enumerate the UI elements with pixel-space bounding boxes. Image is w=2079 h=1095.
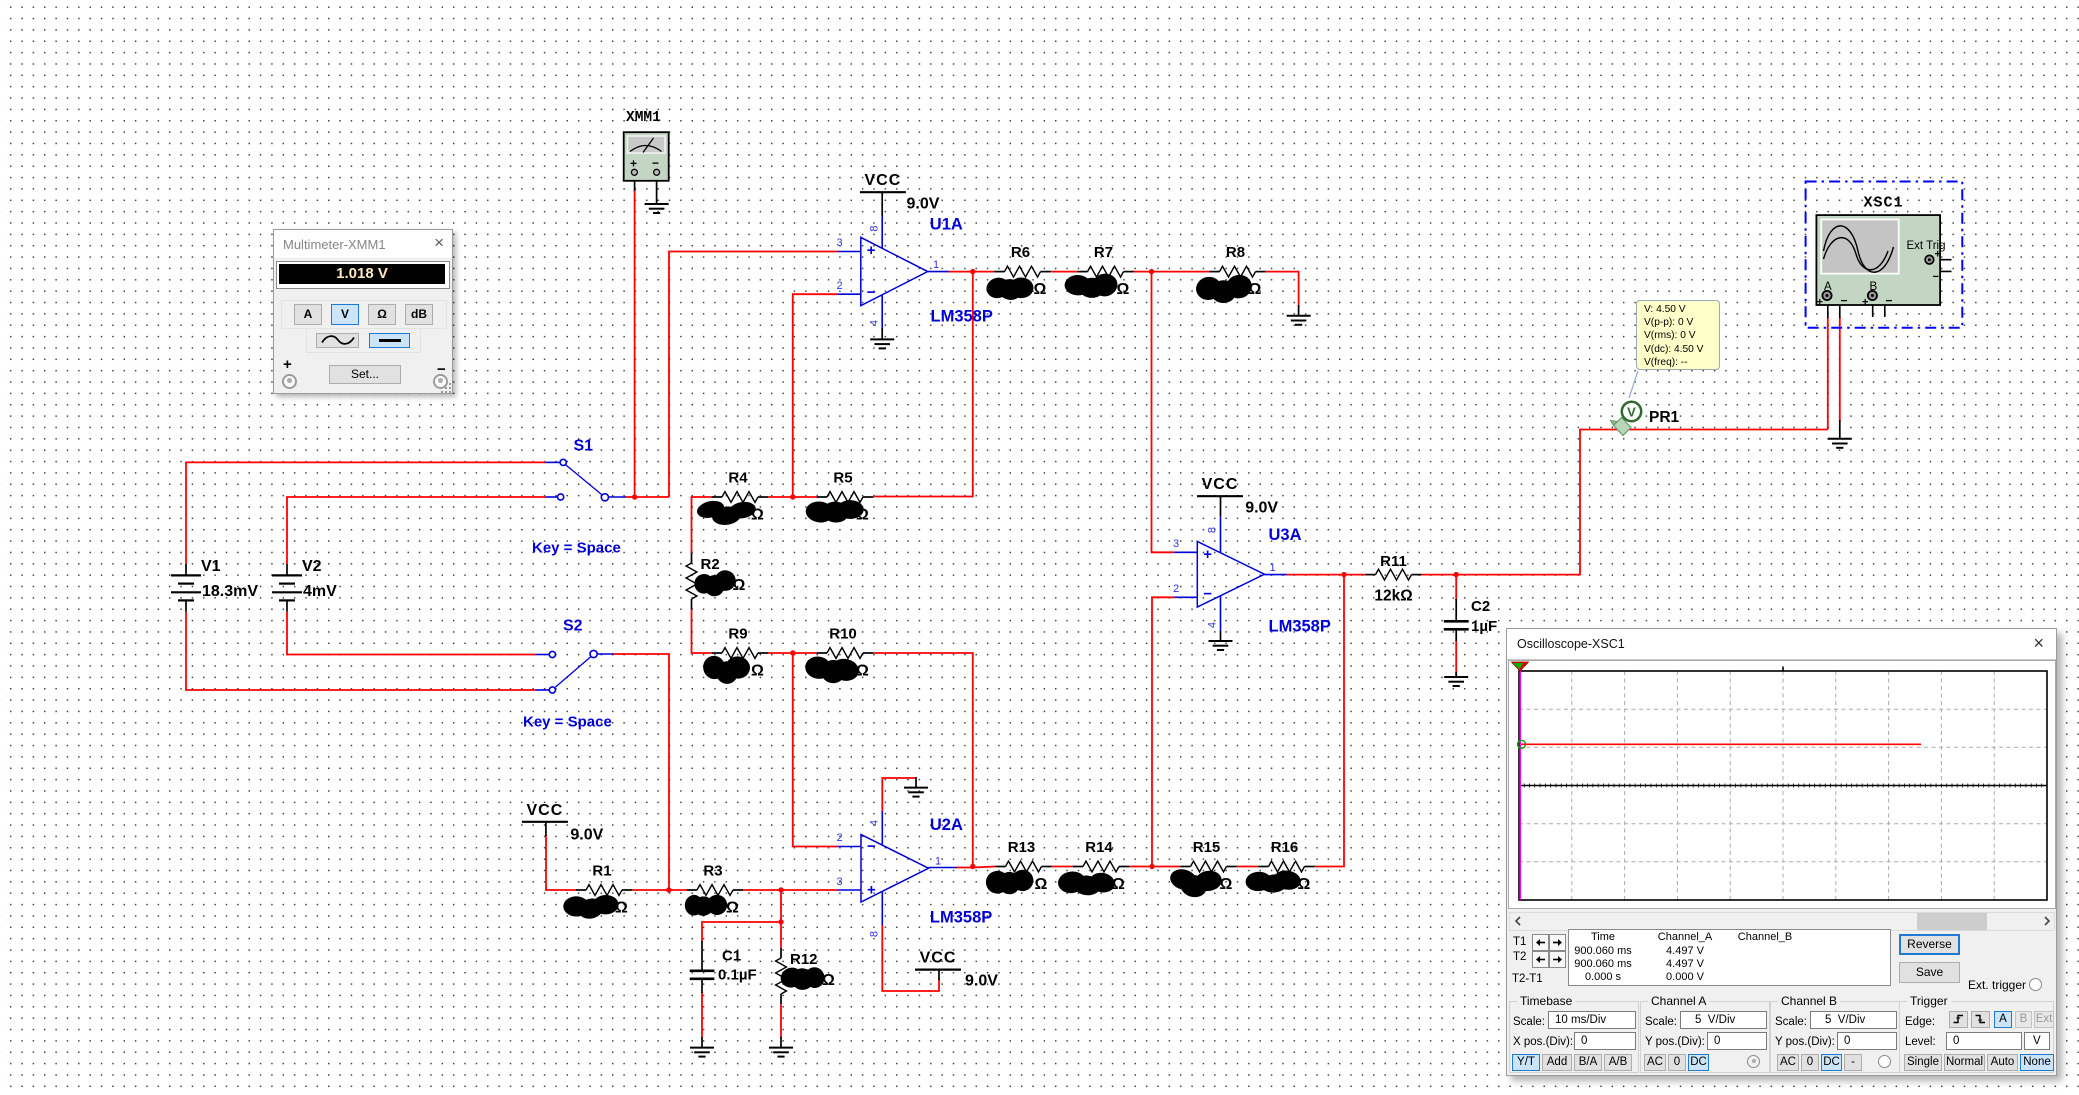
resistor R14 [1057,839,1130,897]
junction C1R12 node [778,919,783,924]
resistor R1 [563,863,632,922]
wire R7 to R8 node [1134,271,1209,273]
svg-text:12kΩ: 12kΩ [1374,588,1412,605]
wire R2 bottom to R9 left [692,609,712,653]
wire R4R5 node up to U1A pin2 [793,294,838,497]
svg-text:V1: V1 [201,558,221,575]
wire scope A plus down to PR1 wire [1827,317,1829,430]
wire S2 output down to R1 node [613,654,669,890]
wire R13R14 node up to U3A pin2 [1152,597,1174,866]
multimeter XMM1 icon [624,132,669,181]
wire C2 bottom to ground [1455,640,1457,677]
resistor R7 [1064,244,1133,298]
wire V2 top to S1 [287,497,546,564]
svg-text:+: + [1935,249,1941,261]
svg-text:Ω: Ω [1249,281,1262,298]
junction R4R5 node [790,494,795,499]
svg-text:LM358P: LM358P [1269,617,1331,635]
wire R12 bottom to ground [780,1004,782,1038]
label U1A [930,216,963,234]
svg-text:R14: R14 [1085,839,1113,856]
svg-text:−: − [867,284,876,301]
junction R11C2 node [1454,572,1459,577]
junction R7R8 node [1149,269,1154,274]
svg-text:Ω: Ω [1117,281,1130,298]
svg-text:R2: R2 [701,556,720,573]
wire R15 to R16 [1237,866,1258,868]
wire R1 to R3 node [632,889,686,891]
svg-text:Ω: Ω [1220,876,1233,893]
label 9.0V U2A left [570,827,603,844]
wire U2A pin8 to VCC [882,925,939,991]
power VCC U2A left [522,802,568,822]
resistor R3 [684,863,743,918]
svg-text:3: 3 [1173,538,1179,550]
wire U3A out to R11 [1286,574,1365,576]
oscilloscope XSC1 icon [1806,182,1963,328]
svg-text:R5: R5 [833,470,852,487]
wire R9 right to R10 left [768,652,816,654]
resistor R10 [804,626,874,685]
power VCC U1A [860,172,906,192]
svg-text:R9: R9 [728,626,747,643]
svg-text:−: − [867,838,876,855]
svg-text:9.0V: 9.0V [1245,500,1278,517]
svg-text:VCC: VCC [1202,476,1239,493]
wire U2A pin leads [838,811,957,925]
svg-text:Ω: Ω [856,663,869,680]
resistor R15 [1168,839,1237,900]
svg-text:S2: S2 [563,618,583,635]
label PR1 [1649,409,1680,426]
power VCC U2A right [915,950,961,970]
ground R8 [1287,305,1311,325]
svg-text:VCC: VCC [527,802,564,819]
svg-text:R8: R8 [1226,244,1245,261]
svg-text:LM358P: LM358P [931,308,993,326]
wire U3A power stubs [1220,496,1222,641]
label 9.0V U2A right [965,973,998,990]
wire U2A right VCC stub [938,970,940,980]
wire R4 left to R2 top [692,497,712,553]
wire R7R8 node down to U3A pin3 [1152,272,1175,553]
probe tooltip PR1 values [1636,300,1720,370]
wire C2 top lead [1455,575,1457,600]
svg-text:4mV: 4mV [303,583,337,600]
label LM358P U1A [931,308,993,326]
ground R12 [769,1037,793,1057]
wire scope Ext Trig stubs [1930,260,1951,272]
svg-text:1: 1 [933,259,939,271]
resistor R9 [701,626,769,685]
svg-text:−: − [652,156,659,170]
svg-text:C1: C1 [722,948,741,965]
wire VCC to R1 left [546,835,576,890]
svg-text:Ω: Ω [726,900,739,917]
junction U1A out [970,269,975,274]
wire R9R10 node down to U2A pin2 [793,653,838,847]
svg-text:R15: R15 [1193,839,1221,856]
wire V2 bottom to S2 [287,612,535,655]
label LM358P U3A [1269,617,1331,635]
svg-text:V: V [1627,405,1636,420]
svg-text:Ω: Ω [751,507,764,524]
svg-text:+: + [1817,297,1823,309]
resistor R12 [776,948,835,1005]
svg-text:1: 1 [935,856,941,868]
wire R11 to C2 node [1422,574,1456,576]
wire scope B terminals black stubs [1872,296,1884,318]
pin numbers U1A [836,225,939,326]
svg-text:9.0V: 9.0V [570,827,603,844]
svg-text:R7: R7 [1094,244,1113,261]
svg-text:1: 1 [1269,562,1275,574]
svg-text:Ω: Ω [1112,876,1125,893]
wire XMM1 plus probe [634,190,636,497]
wire R10 right to U2A output node [873,653,973,867]
svg-text:−: − [1886,294,1893,308]
wire R14 to node [1129,866,1152,868]
svg-text:−: − [1933,271,1939,283]
svg-text:R3: R3 [703,863,722,880]
capacitor C1 [690,941,757,993]
resistor R13 [984,839,1052,896]
switch S2 [535,618,613,694]
svg-text:18.3mV: 18.3mV [202,583,258,600]
svg-text:R4: R4 [728,470,748,487]
wire V1 top to S1 [186,462,546,564]
ground C1 [690,1037,714,1057]
label 9.0V U3A [1245,500,1278,517]
label 9.0V U1A [907,196,940,213]
wire U1A pin leads [838,216,949,328]
svg-text:Ω: Ω [822,972,835,989]
wire R12 top [780,922,782,948]
svg-text:Ω: Ω [615,900,628,917]
svg-text:2: 2 [1173,583,1179,595]
svg-text:PR1: PR1 [1649,409,1680,426]
resistor R4 [695,470,768,527]
capacitor C2 [1444,598,1497,641]
battery V1 [171,558,258,612]
svg-text:0.1µF: 0.1µF [718,967,757,984]
svg-text:Ω: Ω [856,507,869,524]
svg-text:Key = Space: Key = Space [523,714,612,731]
svg-text:S1: S1 [574,438,594,455]
switch S1 [546,438,626,501]
probe PR1 [1611,402,1642,436]
label Key Space S1 [532,540,621,557]
label U2A [930,816,963,834]
wire R4 right to R5 left [768,496,816,498]
resistor R6 [984,244,1051,301]
power VCC U3A [1197,476,1243,496]
battery V2 [272,558,337,612]
wire XMM1 minus to ground [656,176,658,204]
svg-text:8: 8 [1207,527,1219,533]
svg-text:U2A: U2A [930,816,963,834]
wire R16 right up to U3A out node [1315,575,1344,867]
resistor R2 [686,553,745,610]
wire R5 right to U1A output [873,272,973,497]
wire U2A pin4 to ground [882,778,916,811]
wire R3 right to U2A pin3 [743,889,838,891]
svg-text:4: 4 [869,820,881,826]
ground scope [1828,420,1852,448]
svg-text:Ω: Ω [751,663,764,680]
wire R6 to R7 [1051,271,1077,273]
op-amp U1A [861,237,928,305]
svg-text:+: + [867,882,876,899]
svg-text:Ω: Ω [733,577,746,594]
svg-text:1µF: 1µF [1471,618,1497,635]
svg-text:R6: R6 [1011,244,1030,261]
junction R14R15 node [1149,864,1154,869]
wire S1 output to node A [625,496,669,498]
label U3A [1269,526,1302,544]
svg-text:Ω: Ω [1034,281,1047,298]
svg-text:3: 3 [836,237,842,249]
svg-text:R11: R11 [1380,553,1407,570]
resistor R8 [1194,244,1266,303]
svg-text:+: + [1862,297,1868,309]
svg-text:V2: V2 [302,558,322,575]
svg-text:C2: C2 [1471,598,1490,615]
svg-text:2: 2 [836,832,842,844]
svg-text:VCC: VCC [865,172,902,189]
junction R3 U2A node [778,887,783,892]
svg-text:2: 2 [836,280,842,292]
ground XMM1 [645,204,669,213]
label LM358P U2A [930,909,992,927]
label XMM1 [626,110,661,126]
wire R3 node down to C1 R12 node [780,890,782,922]
resistor R5 [805,470,874,525]
wire C2 node right and up to PR1 [1456,430,1828,575]
svg-text:4: 4 [1207,622,1219,628]
wire scope A terminals black stubs [1827,296,1840,319]
wire U2A out to R13 [956,867,995,868]
svg-text:VCC: VCC [920,950,957,967]
tooltip leader line [1629,371,1638,398]
svg-text:R1: R1 [592,863,611,880]
svg-text:LM358P: LM358P [930,909,992,927]
wire R8 right to ground [1266,272,1299,306]
wire XMM1 plus stub [634,176,636,191]
svg-text:−: − [1841,294,1848,308]
svg-text:Key = Space: Key = Space [532,540,621,557]
pin numbers U3A [1173,527,1276,628]
wire scope A minus down to ground [1839,317,1841,421]
svg-text:R13: R13 [1008,839,1036,856]
wire U2A left VCC stub [545,822,547,836]
wire C1 bottom to ground [701,992,703,1038]
resistor R11 [1365,553,1422,605]
svg-text:R12: R12 [790,951,818,968]
junction S1 out node [632,494,637,499]
wire U1A out to R6 [948,271,994,273]
wire V1 bottom to S2 [186,612,535,690]
svg-text:+: + [1203,546,1212,563]
op-amp U3A [1197,541,1264,607]
wire C1 branch [702,922,781,941]
svg-text:8: 8 [869,225,881,231]
wire node to R15 [1152,866,1180,868]
junction R9R10 node [790,650,795,655]
label Key Space S2 [523,714,612,731]
ground U1A pin4 [870,339,894,348]
svg-text:R10: R10 [829,626,857,643]
svg-text:9.0V: 9.0V [907,196,940,213]
junction R1R3 node [666,887,671,892]
svg-text:+: + [867,242,876,259]
wire U3A pin leads [1174,517,1286,631]
junction U2A out [970,864,975,869]
svg-text:4: 4 [869,320,881,326]
dialog Oscilloscope-XSC1 [1506,628,2057,1076]
svg-text:3: 3 [836,876,842,888]
ground U2A top [904,777,928,797]
wire node A up to U1A pin3 [669,252,838,498]
svg-text:Ω: Ω [1035,876,1048,893]
svg-text:−: − [1203,586,1212,603]
svg-text:R16: R16 [1271,839,1299,856]
op-amp U2A [861,835,929,903]
resistor R16 [1245,839,1315,894]
wire U1A power stubs [881,192,883,338]
label XSC1 [1864,195,1904,212]
dialog Multimeter-XMM1 [273,229,453,394]
wire R13 to R14 [1052,866,1073,868]
svg-text:U1A: U1A [930,216,963,234]
pin numbers U2A [836,820,941,937]
junction U3A out node [1341,572,1346,577]
svg-text:+: + [630,157,637,171]
svg-text:Ω: Ω [1298,876,1311,893]
svg-text:U3A: U3A [1269,526,1302,544]
svg-text:XSC1: XSC1 [1864,195,1904,212]
svg-text:9.0V: 9.0V [965,973,998,990]
ground C2 [1444,672,1468,686]
svg-text:XMM1: XMM1 [626,110,661,126]
svg-text:8: 8 [869,931,881,937]
ground U3A pin4 [1209,641,1233,650]
